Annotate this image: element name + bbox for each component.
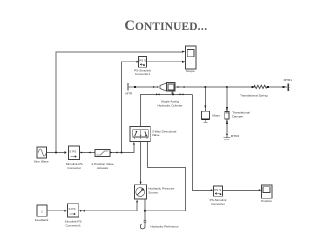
wire PS-Simulink Converter1 to scope input 2: [147, 61, 183, 63]
wire constant to converter: [47, 210, 65, 212]
svg-text:CONTINUED...: CONTINUED...: [124, 18, 207, 34]
wire position sense line down to PS-Simulink Converter: [193, 94, 211, 190]
wire PS-Simulink Converter to Position: [223, 189, 259, 191]
arrow up into pressure source control port: [136, 200, 138, 203]
svg-text:S PS: S PS: [69, 149, 76, 153]
node sine branch junction: [55, 152, 57, 154]
svg-text:Damper: Damper: [232, 115, 243, 119]
wire connection marks right of cylinder: [178, 86, 185, 88]
wire actuator junction up to PS-Simulink Converter1: [122, 62, 137, 153]
node actuator output junction: [121, 152, 123, 154]
svg-text:Valve: Valve: [152, 133, 160, 137]
svg-text:Actuator: Actuator: [97, 166, 109, 170]
svg-text:Mass: Mass: [213, 114, 221, 118]
node main line damper junction: [226, 86, 228, 88]
svg-text:Position: Position: [261, 199, 272, 203]
wire connection marks spring right: [267, 86, 285, 88]
svg-text:Converter1: Converter1: [65, 223, 81, 227]
wire main mechanical line right of cylinder to spring: [178, 86, 256, 88]
ground MTR anchor: [126, 83, 137, 96]
block 2-Position Valve Actuator: [92, 150, 114, 170]
ground Hydraulic Reference: [140, 221, 179, 229]
component Hydraulic Pressure Source: [134, 185, 174, 199]
wire connection marks actuator output: [110, 152, 117, 154]
component Translational Spring: [240, 85, 268, 97]
block Sine Wave: [34, 147, 49, 164]
svg-text:Converter: Converter: [67, 166, 81, 170]
svg-text:MTR: MTR: [126, 92, 133, 96]
block Position scope: [259, 185, 273, 203]
block PS-Simulink Converter (bottom): [210, 186, 227, 206]
wire mass branch down: [204, 87, 206, 111]
component Single-Acting Hydraulic Cylinder: [157, 83, 182, 108]
svg-text:S PS: S PS: [69, 207, 76, 211]
wire damper branch down to MTR2: [226, 87, 228, 138]
wire connection marks lower sense line: [156, 93, 184, 95]
wire spring to MTR1 anchor: [266, 86, 287, 88]
title CONTINUED...: [124, 18, 207, 34]
wire connection marks converter1 output: [80, 210, 85, 212]
arrow into mass: [204, 106, 206, 109]
svg-text:PS S: PS S: [214, 188, 221, 192]
svg-text:Feedback: Feedback: [35, 218, 49, 222]
wire pressure source T port down to hydraulic reference: [144, 199, 146, 227]
wire connection marks spring left: [251, 86, 253, 88]
node hydraulic reference junction: [144, 210, 146, 212]
svg-text:Converter1: Converter1: [135, 72, 151, 76]
svg-text:MTR1: MTR1: [284, 78, 293, 82]
component Translational Damper: [225, 107, 250, 124]
wire lower cylinder sense line to valve port A: [141, 94, 193, 126]
node main line mass junction: [204, 86, 206, 88]
wire branch up from sine junction to scope input 1: [56, 52, 182, 153]
wire connection marks converter-actuator: [81, 152, 91, 154]
ground MTR2: [224, 133, 240, 139]
component 3-Way Directional Valve: [130, 126, 177, 141]
block Scope: [182, 46, 196, 73]
wire converter to actuator: [80, 152, 96, 154]
block Constant: [35, 205, 49, 222]
block Simulink-PS Converter1 (bottom): [65, 204, 82, 228]
wire cylinder bottom port stub: [171, 92, 173, 95]
svg-text:Hydraulic Cylinder: Hydraulic Cylinder: [157, 104, 182, 108]
svg-text:Sine Wave: Sine Wave: [34, 160, 49, 164]
component Mass: [201, 111, 220, 122]
wire main mechanical line left of cylinder: [129, 86, 157, 88]
svg-text:MTR2: MTR2: [231, 134, 240, 138]
svg-text:1: 1: [41, 210, 43, 214]
wire valve port P down to pressure source: [140, 141, 142, 184]
wire connection marks left of cylinder: [153, 86, 158, 88]
svg-text:Hydraulic Reference: Hydraulic Reference: [151, 224, 179, 228]
svg-text:Translational Spring: Translational Spring: [240, 93, 268, 97]
svg-text:Scope: Scope: [186, 69, 195, 73]
wire valve port T return loop: [145, 141, 186, 210]
ground MTR1 anchor: [284, 78, 293, 91]
wire actuator output to valve port X: [110, 144, 134, 153]
svg-text:PS S: PS S: [139, 59, 146, 63]
wire sine-wave output: [47, 152, 65, 154]
block Simulink-PS Converter: [65, 146, 83, 170]
arrow into valve port X: [133, 142, 135, 145]
svg-text:Source: Source: [148, 191, 158, 195]
svg-text:Converter: Converter: [211, 202, 225, 206]
wire converter output control line to pressure source: [79, 201, 137, 211]
block PS-Simulink Converter1: [134, 57, 151, 76]
arrow into pressure source top: [140, 182, 142, 185]
